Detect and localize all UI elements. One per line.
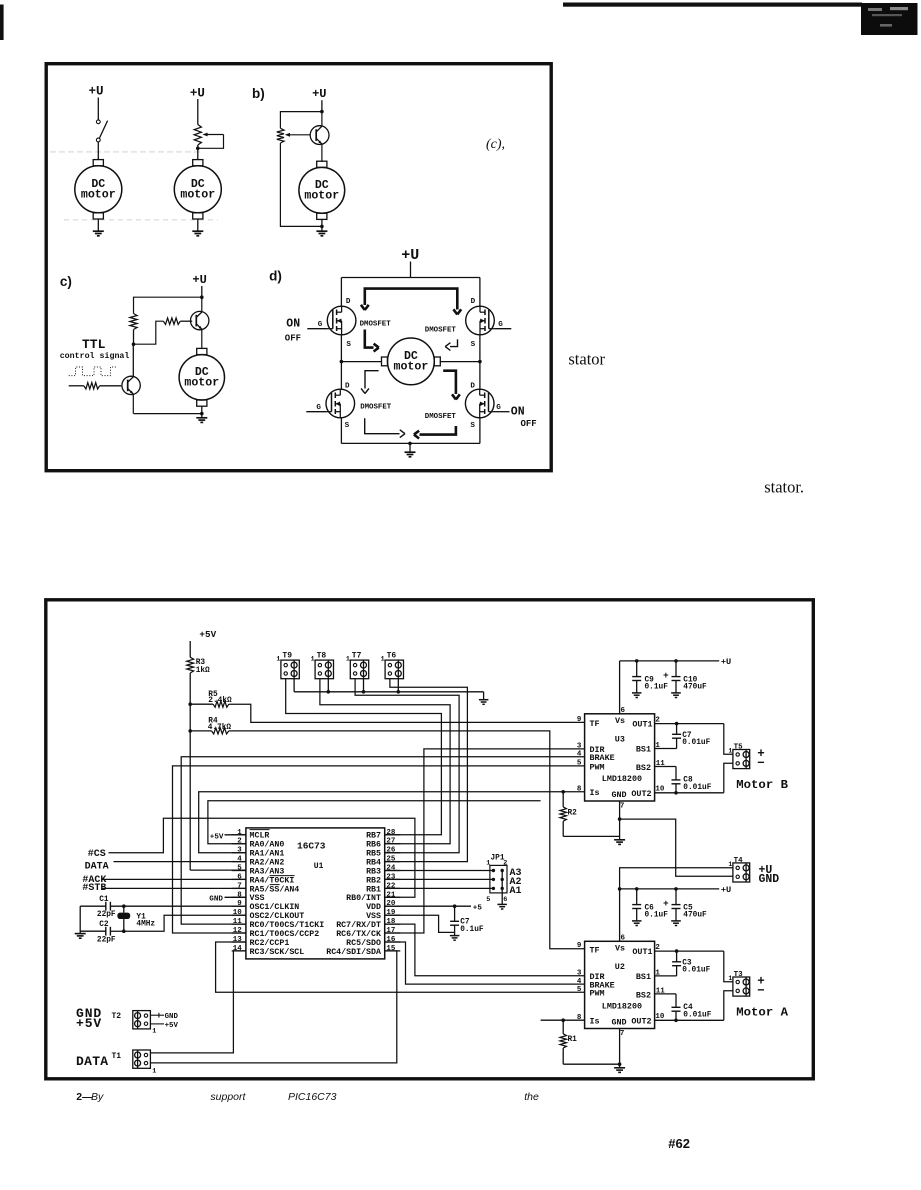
- wire left rail mid: [340, 335, 342, 389]
- wire collector: [321, 112, 323, 127]
- wire pin 17 to U3 DIR: [385, 749, 585, 933]
- capacitor C3 0.01uF: [676, 951, 678, 962]
- wire: [197, 99, 199, 125]
- svg-text:RA2/AN2: RA2/AN2: [250, 858, 285, 868]
- overline SS: [270, 884, 280, 886]
- svg-text:RB5: RB5: [366, 850, 381, 859]
- wire bottom rail: [134, 413, 202, 415]
- svg-text:6: 6: [621, 707, 626, 715]
- wire U3 GND: [619, 801, 621, 840]
- svg-text:support: support: [210, 1091, 246, 1103]
- current arrow right-inner (thick): [443, 371, 456, 394]
- svg-text:RC4/SDI/SDA: RC4/SDI/SDA: [326, 947, 381, 957]
- ground: [632, 920, 642, 922]
- svg-text:+5V: +5V: [76, 1016, 102, 1031]
- wire: [189, 673, 191, 870]
- svg-text:7: 7: [620, 1030, 625, 1038]
- svg-text:T4: T4: [734, 857, 744, 865]
- svg-text:ON: ON: [511, 406, 525, 419]
- svg-text:7: 7: [237, 882, 242, 890]
- wire T7 pin right: [363, 679, 365, 692]
- svg-text:TF: TF: [590, 945, 600, 955]
- svg-text:7: 7: [620, 802, 625, 810]
- svg-text:RB7: RB7: [366, 832, 381, 841]
- wire Is bus A to pin 2: [208, 801, 541, 844]
- svg-text:C1: C1: [99, 896, 109, 904]
- motor M3 (DC motor): [317, 161, 327, 167]
- wire: [189, 641, 191, 657]
- connector T7: [350, 660, 368, 679]
- svg-text:470uF: 470uF: [683, 912, 707, 920]
- wire U2 GND: [619, 1029, 621, 1068]
- svg-text:4: 4: [237, 856, 242, 864]
- ground: [201, 414, 203, 418]
- svg-text:DMOSFET: DMOSFET: [360, 321, 392, 329]
- connector T1: [133, 1050, 151, 1068]
- wire node to base resistor: [134, 321, 164, 344]
- wire OUT1: [655, 723, 724, 725]
- svg-text:+5: +5: [473, 904, 483, 912]
- wire pin 24 to JP1: [385, 870, 494, 872]
- wire: [201, 406, 203, 414]
- svg-text:470uF: 470uF: [683, 684, 707, 692]
- resistor R4 4.7k: [190, 730, 211, 732]
- wire T6 pin right: [397, 679, 399, 692]
- wire BS2: [655, 993, 676, 995]
- svg-text:OUT2: OUT2: [631, 789, 651, 799]
- svg-text:D: D: [346, 298, 351, 306]
- wire gate top-right: [494, 328, 511, 330]
- wire T8 pin right: [327, 679, 329, 692]
- svg-text:DATA: DATA: [85, 861, 109, 872]
- svg-text:26: 26: [386, 847, 396, 855]
- svg-text:9: 9: [577, 942, 582, 950]
- svg-text:0.1uF: 0.1uF: [645, 912, 669, 920]
- current arrow left-inner (thin): [365, 371, 379, 389]
- svg-text:S: S: [471, 341, 476, 349]
- svg-text:27: 27: [386, 838, 395, 846]
- svg-text:T6: T6: [387, 651, 397, 660]
- wiper arrow to base: [287, 134, 310, 136]
- svg-text:9: 9: [237, 900, 242, 908]
- svg-text:RB4: RB4: [366, 859, 381, 868]
- svg-text:GND: GND: [759, 873, 780, 886]
- junction: [618, 817, 622, 821]
- svg-text:+: +: [663, 898, 669, 909]
- IC U1 PIC 16C73: [246, 828, 385, 959]
- svg-text:BS2: BS2: [636, 990, 651, 1000]
- svg-text:RB3: RB3: [366, 867, 381, 876]
- svg-text:RC3/SCK/SCL: RC3/SCK/SCL: [250, 947, 305, 957]
- svg-text:control signal: control signal: [60, 351, 130, 361]
- svg-text:S: S: [346, 341, 351, 349]
- svg-text:RA4/T0CKI: RA4/T0CKI: [250, 875, 295, 885]
- svg-text:G: G: [496, 404, 501, 412]
- svg-text:R2: R2: [568, 809, 578, 817]
- svg-text:15: 15: [386, 945, 396, 953]
- svg-text:23: 23: [386, 873, 396, 881]
- svg-text:T9: T9: [282, 651, 292, 660]
- svg-text:the: the: [524, 1091, 539, 1103]
- svg-text:motor: motor: [184, 376, 219, 389]
- junction: [618, 887, 622, 891]
- svg-text:MCLR: MCLR: [250, 832, 270, 841]
- capacitor C7 0.01uF: [676, 724, 678, 735]
- svg-text:PWM: PWM: [590, 989, 605, 999]
- svg-text:+: +: [663, 670, 669, 681]
- connector T3: [733, 977, 750, 996]
- svg-text:DATA: DATA: [76, 1054, 108, 1069]
- svg-text:BS2: BS2: [636, 763, 651, 773]
- svg-text:RB6: RB6: [366, 841, 381, 850]
- svg-text:LMD18200: LMD18200: [602, 1001, 642, 1011]
- svg-text:D: D: [471, 298, 476, 306]
- wire OUT2: [655, 792, 724, 794]
- svg-text:0.01uF: 0.01uF: [682, 739, 710, 747]
- capacitor C4 0.01uF: [675, 994, 677, 1007]
- svg-text:DMOSFET: DMOSFET: [425, 327, 457, 335]
- resistor R3 1k: [187, 657, 194, 673]
- svg-text:U2: U2: [615, 962, 625, 972]
- mosfet Q4 top-left: [327, 306, 356, 335]
- wire left rail lower: [132, 344, 134, 377]
- svg-text:−: −: [757, 984, 765, 998]
- overline MCLR: [250, 829, 270, 831]
- resistor R5 2.4k: [190, 703, 213, 705]
- resistor R1: [561, 1018, 565, 1022]
- wire pin 16 to U2 BRAKE: [385, 942, 585, 984]
- ground: [497, 903, 507, 905]
- wire: [321, 219, 323, 226]
- wire motor row right: [440, 361, 480, 363]
- wire left rail lower: [340, 418, 342, 444]
- svg-text:GND: GND: [165, 1013, 179, 1021]
- svg-text:5: 5: [486, 896, 490, 904]
- svg-text:1: 1: [276, 655, 280, 662]
- wire: [180, 320, 192, 322]
- wire pin 22 to JP1: [385, 887, 494, 889]
- figure 2 border frame: [46, 600, 814, 1079]
- svg-text:1: 1: [311, 655, 315, 662]
- svg-text:1: 1: [152, 1027, 156, 1035]
- wire OUT2: [655, 1019, 724, 1021]
- wire JP1 ground column: [501, 871, 503, 905]
- svg-text:Is: Is: [590, 1016, 600, 1026]
- svg-text:20: 20: [386, 900, 396, 908]
- svg-text:2: 2: [237, 838, 242, 846]
- wire pin 19 VSS: [385, 915, 455, 932]
- wire TTL input: [69, 385, 84, 387]
- svg-text:ON: ON: [286, 318, 300, 331]
- svg-text:1: 1: [728, 975, 732, 982]
- svg-text:c): c): [60, 274, 72, 289]
- rheostat R (circuit b): [277, 128, 284, 143]
- svg-text:1: 1: [381, 655, 385, 662]
- svg-text:3: 3: [577, 743, 582, 751]
- svg-text:VSS: VSS: [250, 894, 265, 903]
- wire: [197, 145, 199, 160]
- ground: [483, 692, 485, 700]
- wire #ACK to pin 6: [102, 878, 246, 880]
- wire: [201, 286, 203, 297]
- wire emitter: [201, 329, 203, 348]
- wire: [97, 219, 99, 231]
- wire wiper loop: [198, 135, 224, 149]
- svg-text:24: 24: [386, 865, 396, 873]
- svg-text:Vs: Vs: [615, 943, 625, 953]
- svg-text:T3: T3: [734, 971, 744, 979]
- svg-text:2: 2: [503, 860, 507, 868]
- svg-text:OSC2/CLKOUT: OSC2/CLKOUT: [250, 911, 305, 921]
- wire top: [280, 112, 322, 129]
- junction: [320, 110, 324, 114]
- svg-text:1: 1: [728, 861, 732, 868]
- svg-text:17: 17: [386, 927, 395, 935]
- svg-text:VDD: VDD: [366, 903, 381, 912]
- connector T9: [281, 660, 299, 679]
- svg-text:11: 11: [233, 918, 243, 926]
- svg-text:motor: motor: [304, 189, 339, 202]
- svg-text:OFF: OFF: [285, 334, 301, 344]
- svg-text:T1: T1: [112, 1052, 122, 1061]
- svg-text:b): b): [252, 86, 265, 101]
- wire R5 to U3 TF: [229, 704, 585, 722]
- scan artifact band: [50, 151, 200, 153]
- svg-text:PWM: PWM: [590, 762, 605, 772]
- svg-text:DMOSFET: DMOSFET: [360, 403, 392, 411]
- wire OUT1: [655, 950, 724, 952]
- current arrow bottom-left (thin): [365, 418, 400, 434]
- svg-text:RB2: RB2: [366, 876, 381, 885]
- svg-text:GND: GND: [209, 895, 223, 903]
- mosfet Q7 bottom-right: [465, 389, 494, 418]
- wire collector: [201, 297, 203, 312]
- motor M1 (DC motor): [93, 160, 103, 166]
- wire gate top-left: [307, 328, 327, 330]
- svg-text:G: G: [316, 404, 321, 412]
- ground: [192, 230, 203, 232]
- connector T5: [733, 750, 750, 769]
- wire top rail: [341, 277, 480, 279]
- wire left rail upper: [340, 278, 342, 307]
- svg-text:+U: +U: [190, 87, 205, 101]
- ground: [671, 920, 681, 922]
- resistor R base (horizontal): [163, 318, 180, 324]
- transistor Q2 top (circuit c): [191, 311, 209, 329]
- svg-text:RC6/TX/CK: RC6/TX/CK: [336, 929, 381, 939]
- svg-text:3: 3: [237, 847, 242, 855]
- wire pin 20 VDD to +5: [385, 905, 471, 907]
- svg-text:21: 21: [386, 891, 396, 899]
- motor M2 (DC motor): [193, 160, 203, 166]
- motor M4 (DC motor): [197, 348, 207, 354]
- wire: [133, 330, 135, 345]
- svg-text:14: 14: [233, 945, 243, 953]
- ground: [75, 933, 86, 935]
- svg-text:#62: #62: [668, 1136, 690, 1151]
- svg-text:RC1/T00CS/CCP2: RC1/T00CS/CCP2: [250, 929, 320, 939]
- wire: [321, 226, 323, 231]
- svg-text:OUT1: OUT1: [632, 720, 652, 730]
- svg-text:RC2/CCP1: RC2/CCP1: [250, 938, 290, 948]
- svg-text:1: 1: [346, 655, 350, 662]
- svg-text:9: 9: [577, 716, 582, 724]
- svg-text:T7: T7: [352, 651, 362, 660]
- svg-text:OUT1: OUT1: [632, 947, 652, 957]
- svg-text:D: D: [470, 383, 475, 391]
- wire T-connector common ground net: [293, 679, 295, 692]
- svg-text:R1: R1: [568, 1036, 578, 1044]
- svg-text:motor: motor: [81, 188, 116, 201]
- svg-text:25: 25: [386, 856, 396, 864]
- junction: [327, 690, 331, 694]
- wire BS1: [655, 748, 677, 750]
- wire T7 pin left: [355, 679, 459, 853]
- wire: [225, 834, 246, 836]
- svg-text:5: 5: [577, 760, 582, 768]
- wire top: [134, 297, 202, 313]
- figure 1 border frame: [46, 64, 551, 471]
- svg-text:U3: U3: [615, 734, 625, 744]
- wire to pin 5: [190, 869, 246, 871]
- svg-text:RA1/AN1: RA1/AN1: [250, 849, 285, 859]
- svg-text:Is: Is: [590, 788, 600, 798]
- svg-text:1kΩ: 1kΩ: [196, 667, 210, 675]
- wire right rail lower: [479, 418, 481, 444]
- svg-text:5: 5: [577, 986, 582, 994]
- wire emitter Q3: [132, 394, 134, 414]
- junction: [453, 904, 457, 908]
- svg-text:8: 8: [237, 891, 242, 899]
- svg-text:Vs: Vs: [615, 716, 625, 726]
- svg-text:By: By: [91, 1091, 104, 1103]
- wire +U rail A: [620, 888, 720, 890]
- junction: [340, 360, 344, 364]
- svg-text:T8: T8: [317, 651, 327, 660]
- wire pin 14 to T1: [150, 951, 246, 1053]
- svg-text:motor: motor: [180, 188, 215, 201]
- svg-text:10: 10: [233, 909, 243, 917]
- svg-text:0.1uF: 0.1uF: [460, 926, 484, 934]
- node junction: [132, 342, 136, 346]
- svg-text:+5V: +5V: [165, 1022, 179, 1030]
- mosfet Q5 top-right: [466, 306, 495, 335]
- current arrow top path (thick): [365, 289, 458, 310]
- junction: [674, 791, 678, 795]
- svg-text:S: S: [345, 422, 350, 430]
- page edge black bar top-left: [0, 5, 4, 41]
- svg-text:(c),: (c),: [486, 137, 505, 152]
- junction: [200, 412, 204, 416]
- capacitor C9 0.1uF: [636, 661, 638, 677]
- ground: [614, 1067, 625, 1069]
- wire OSC2: [110, 915, 246, 931]
- wire ground rail crystal: [79, 906, 81, 933]
- svg-text:stator: stator: [568, 350, 605, 369]
- wire pin 12 to U3 PWM: [173, 766, 585, 933]
- junction: [635, 659, 639, 663]
- resistor R base Q3: [84, 383, 100, 389]
- connector T2: [133, 1011, 151, 1029]
- svg-text:+U: +U: [721, 885, 731, 895]
- wire T6 pin left: [385, 679, 468, 862]
- svg-text:BS1: BS1: [636, 745, 651, 755]
- wire: [410, 262, 412, 278]
- svg-text:RA0/AN0: RA0/AN0: [250, 840, 285, 850]
- crystal Y1 4MHz: [123, 906, 125, 912]
- svg-text:22pF: 22pF: [97, 911, 116, 919]
- svg-text:6: 6: [621, 935, 626, 943]
- wire Is bus B to pin 3: [199, 792, 585, 853]
- wire bottom rail: [341, 442, 480, 444]
- wire: [321, 100, 323, 111]
- svg-text:TTL: TTL: [82, 337, 106, 352]
- page top rule: [563, 3, 862, 7]
- svg-text:U1: U1: [314, 862, 324, 871]
- wire motor row left: [341, 361, 382, 363]
- overline T0CKI: [270, 875, 295, 877]
- junction: [200, 295, 204, 299]
- connector T6: [385, 660, 403, 679]
- wire DATA to pin 4: [114, 861, 246, 863]
- wire +U rail B: [620, 660, 720, 662]
- wire R4 to U2 TF: [229, 731, 585, 949]
- svg-text:T2: T2: [112, 1012, 122, 1021]
- driver U2 LMD18200: [585, 941, 655, 1028]
- current arrow right-mid (thin): [450, 339, 458, 346]
- svg-text:+5V: +5V: [199, 629, 216, 640]
- wire Vs U2: [619, 889, 621, 941]
- svg-text:GND: GND: [612, 790, 627, 800]
- wiper arrow: [205, 134, 224, 136]
- ground: [93, 230, 104, 232]
- capacitor C6 0.1uF: [636, 889, 638, 905]
- svg-text:3: 3: [577, 969, 582, 977]
- wire: [97, 142, 99, 160]
- svg-text:8: 8: [577, 785, 582, 793]
- svg-text:19: 19: [386, 909, 396, 917]
- wire T8 pin left: [320, 679, 450, 844]
- svg-text:18: 18: [386, 918, 396, 926]
- wire #STB to pin 7: [102, 887, 246, 889]
- svg-text:RB0/INT: RB0/INT: [346, 893, 381, 903]
- svg-text:+5V: +5V: [210, 834, 224, 842]
- driver U3 LMD18200: [585, 714, 655, 801]
- svg-text:RC7/RX/DT: RC7/RX/DT: [336, 920, 381, 930]
- svg-text:TF: TF: [590, 719, 600, 729]
- svg-text:0.01uF: 0.01uF: [683, 1011, 711, 1019]
- junction: [635, 887, 639, 891]
- wire pin 15 to T1: [150, 951, 396, 1063]
- svg-text:4MHz: 4MHz: [136, 920, 155, 928]
- svg-text:G: G: [498, 321, 503, 329]
- wire: [100, 385, 122, 387]
- junction: [320, 225, 324, 229]
- svg-text:GND: GND: [612, 1017, 627, 1027]
- svg-text:D: D: [345, 383, 350, 391]
- svg-text:OUT2: OUT2: [631, 1017, 651, 1027]
- svg-text:−: −: [757, 756, 765, 770]
- mosfet Q6 bottom-left: [326, 389, 355, 418]
- wire Is bus A segment: [541, 1019, 585, 1021]
- wire GND to T4: [620, 819, 733, 876]
- svg-text:1: 1: [486, 860, 490, 868]
- svg-text:+U: +U: [88, 84, 103, 98]
- svg-text:LMD18200: LMD18200: [602, 774, 642, 784]
- wire BS2: [655, 766, 676, 768]
- svg-text:Motor B: Motor B: [736, 778, 788, 792]
- svg-text:4: 4: [577, 751, 582, 759]
